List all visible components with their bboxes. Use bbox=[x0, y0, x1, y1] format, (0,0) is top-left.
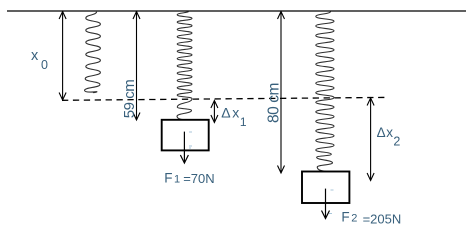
svg-text:x: x bbox=[31, 48, 39, 64]
svg-text:59 cm: 59 cm bbox=[121, 80, 138, 119]
svg-text:1: 1 bbox=[240, 115, 247, 129]
svg-text:80 cm: 80 cm bbox=[265, 83, 282, 123]
svg-text:2: 2 bbox=[351, 212, 357, 224]
svg-text:F: F bbox=[341, 209, 349, 224]
svg-text:F: F bbox=[164, 170, 172, 185]
svg-text:=70N: =70N bbox=[183, 171, 214, 186]
svg-text:=205N: =205N bbox=[363, 211, 402, 226]
svg-text:Δ: Δ bbox=[377, 125, 386, 140]
svg-text:x: x bbox=[232, 104, 239, 120]
svg-text:2: 2 bbox=[393, 134, 400, 148]
svg-text:1: 1 bbox=[174, 173, 180, 185]
svg-text:x: x bbox=[386, 125, 393, 140]
svg-text:Δ: Δ bbox=[221, 104, 230, 120]
svg-text:0: 0 bbox=[41, 58, 48, 72]
